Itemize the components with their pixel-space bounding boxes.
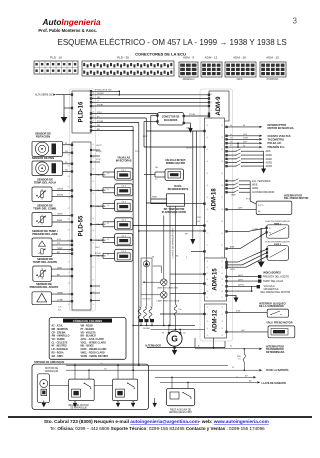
svg-text:DE ARRANQUE: DE ARRANQUE bbox=[70, 407, 87, 410]
svg-text:01: 01 bbox=[211, 94, 213, 96]
svg-text:P1: P1 bbox=[65, 143, 67, 145]
svg-text:Sto. Cabral 723 (8300) Neuqu: Sto. Cabral 723 (8300) Neuquén e-mail bbox=[44, 419, 129, 424]
svg-text:10: 10 bbox=[221, 233, 223, 235]
svg-text:09: 09 bbox=[93, 242, 95, 244]
svg-text:09: 09 bbox=[207, 221, 209, 223]
svg-text:GR - GRIS: GR - GRIS bbox=[52, 356, 64, 358]
svg-text:DA-: DA- bbox=[155, 166, 158, 169]
svg-text:01: 01 bbox=[221, 261, 223, 263]
svg-text:PLD - 16: PLD - 16 bbox=[50, 56, 62, 60]
svg-text:4.5M: 4.5M bbox=[236, 310, 241, 312]
svg-text:B+: B+ bbox=[198, 346, 200, 348]
svg-text:04: 04 bbox=[221, 279, 223, 281]
svg-text:MIL - BEIGE: MIL - BEIGE bbox=[81, 346, 95, 348]
svg-text:CONTROL DEL ARRANQUE E/FRIO: CONTROL DEL ARRANQUE E/FRIO bbox=[172, 227, 175, 259]
svg-text:02: 02 bbox=[207, 267, 209, 269]
svg-text:P163: P163 bbox=[135, 151, 139, 153]
svg-text:14: 14 bbox=[93, 304, 95, 306]
svg-text:03: 03 bbox=[221, 273, 223, 275]
svg-text:ADM - 9: ADM - 9 bbox=[183, 56, 194, 60]
svg-text:W/BK: W/BK bbox=[152, 197, 158, 199]
svg-text:ACONDICIONADOR: ACONDICIONADOR bbox=[252, 191, 274, 194]
svg-text:CR - CREMA: CR - CREMA bbox=[52, 331, 66, 334]
svg-text:VDOS - VERDE OSCURO: VDOS - VERDE OSCURO bbox=[81, 356, 109, 358]
svg-text:03: 03 bbox=[207, 149, 209, 151]
svg-text:BUJÍAS: BUJÍAS bbox=[143, 327, 150, 330]
svg-text:INDICADORES: INDICADORES bbox=[263, 271, 281, 274]
svg-text:INCANDESCENTE: INCANDESCENTE bbox=[168, 188, 189, 191]
svg-text:TEMP. DEL ACEITE: TEMP. DEL ACEITE bbox=[33, 260, 58, 264]
svg-text:05: 05 bbox=[207, 173, 209, 175]
svg-text:TD/W: TD/W bbox=[243, 138, 248, 140]
svg-text:30: 30 bbox=[230, 125, 232, 127]
svg-text:W2: W2 bbox=[65, 170, 68, 172]
svg-text:PT/W: PT/W bbox=[96, 159, 101, 161]
svg-text:ADM - 15: ADM - 15 bbox=[266, 56, 279, 60]
svg-text:DEL FRENO MOTOR: DEL FRENO MOTOR bbox=[284, 197, 309, 200]
svg-text:CUENTA VUELTAS: CUENTA VUELTAS bbox=[268, 134, 291, 138]
svg-text:VD - VERDE: VD - VERDE bbox=[52, 339, 66, 341]
svg-text:PLD-55: PLD-55 bbox=[79, 215, 85, 236]
svg-text:09: 09 bbox=[221, 221, 223, 223]
svg-text:PT/WS-GELB 30/5: PT/WS-GELB 30/5 bbox=[95, 90, 113, 92]
svg-text:48-: 48- bbox=[258, 211, 261, 213]
svg-text:06: 06 bbox=[68, 197, 70, 199]
svg-text:PT/GE: PT/GE bbox=[97, 104, 104, 106]
svg-text:ALTA SERIE 30/3: ALTA SERIE 30/3 bbox=[35, 94, 54, 97]
svg-text:12: 12 bbox=[93, 279, 95, 281]
svg-text:06: 06 bbox=[221, 291, 223, 293]
svg-text:16: 16 bbox=[68, 304, 70, 306]
svg-text:04: 04 bbox=[221, 328, 223, 330]
svg-text:ADM-9: ADM-9 bbox=[216, 96, 222, 116]
svg-text:PLD - 55: PLD - 55 bbox=[117, 56, 129, 60]
svg-text:BR/GN: BR/GN bbox=[95, 253, 101, 255]
svg-text:AZ - AZUL: AZ - AZUL bbox=[52, 325, 64, 328]
svg-text:44PGC: 44PGC bbox=[238, 285, 245, 287]
svg-text:BR - BLANCO: BR - BLANCO bbox=[81, 335, 97, 338]
svg-text:30/2FR: 30/2FR bbox=[97, 93, 104, 95]
svg-text:04: 04 bbox=[93, 107, 95, 109]
svg-text:AMARILLO: AMARILLO bbox=[182, 78, 194, 81]
svg-text:05: 05 bbox=[207, 335, 209, 337]
svg-text:LLAVE DE IGNICIÓN: LLAVE DE IGNICIÓN bbox=[262, 382, 286, 385]
svg-text:MR - MARRÓN: MR - MARRÓN bbox=[52, 328, 68, 331]
svg-text:02: 02 bbox=[211, 102, 213, 104]
svg-text:AutoIngenieria: AutoIngenieria bbox=[42, 17, 101, 27]
svg-text:01: 01 bbox=[207, 307, 209, 309]
svg-text:3: 3 bbox=[293, 17, 298, 26]
svg-text:VMCL - ROJO CLARO: VMCL - ROJO CLARO bbox=[81, 351, 105, 354]
svg-text:07: 07 bbox=[93, 218, 95, 220]
svg-text:CL - CELESTE: CL - CELESTE bbox=[52, 342, 68, 344]
svg-text:13: 13 bbox=[68, 272, 70, 274]
svg-text:RELÉ AUXILIAR DE: RELÉ AUXILIAR DE bbox=[170, 409, 191, 412]
svg-text:RS - ROSA: RS - ROSA bbox=[52, 351, 64, 354]
svg-text:TEMP. DEL AGUA: TEMP. DEL AGUA bbox=[34, 181, 57, 185]
svg-text:MOTOR EN MARCHA: MOTOR EN MARCHA bbox=[268, 126, 294, 130]
svg-text:07: 07 bbox=[221, 197, 223, 199]
svg-text:TEMP. DEL COMB.: TEMP. DEL COMB. bbox=[33, 206, 57, 210]
svg-text:7.5: 7.5 bbox=[238, 358, 241, 360]
svg-text:01: 01 bbox=[93, 144, 95, 146]
svg-text:DEL FRENO DEL MOTOR: DEL FRENO DEL MOTOR bbox=[261, 291, 291, 294]
svg-text:DETERMINADA: DETERMINADA bbox=[266, 351, 285, 354]
svg-text:INT. TEMP. MOTOR: INT. TEMP. MOTOR bbox=[164, 209, 185, 211]
svg-text:03: 03 bbox=[221, 149, 223, 151]
svg-text:03: 03 bbox=[93, 169, 95, 171]
svg-text:PLD-16: PLD-16 bbox=[79, 101, 85, 122]
svg-text:CU/BR: CU/BR bbox=[252, 229, 259, 231]
svg-text:DART: DART bbox=[231, 194, 237, 197]
svg-text:BR/GN: BR/GN bbox=[57, 195, 64, 197]
svg-text:02: 02 bbox=[207, 137, 209, 139]
svg-text:30: 30 bbox=[230, 346, 232, 348]
svg-text:D+: D+ bbox=[230, 134, 232, 136]
svg-text:07: 07 bbox=[207, 297, 209, 299]
svg-text:W: W bbox=[162, 333, 164, 335]
svg-text:GE/GN: GE/GN bbox=[186, 148, 192, 150]
svg-text:08: 08 bbox=[207, 209, 209, 211]
svg-text:VDCL - VERDE CLARO: VDCL - VERDE CLARO bbox=[81, 341, 106, 344]
svg-text:GN/RT: GN/RT bbox=[96, 145, 102, 147]
svg-text:05: 05 bbox=[221, 285, 223, 287]
svg-text:42PT+: 42PT+ bbox=[258, 205, 265, 207]
svg-text:42AM: 42AM bbox=[186, 127, 191, 130]
svg-text:INYECTORAS: INYECTORAS bbox=[116, 160, 132, 163]
svg-text:01: 01 bbox=[207, 261, 209, 263]
svg-text:11: 11 bbox=[207, 245, 209, 247]
svg-text:P2: P2 bbox=[65, 162, 67, 164]
svg-text:02: 02 bbox=[221, 137, 223, 139]
svg-text:ADS: ADS bbox=[266, 150, 271, 153]
svg-text:04: 04 bbox=[93, 181, 95, 183]
svg-text:GN/GE: GN/GE bbox=[57, 189, 64, 191]
svg-text:06: 06 bbox=[221, 185, 223, 187]
svg-text:BOMBA EN FRÍO: BOMBA EN FRÍO bbox=[166, 162, 185, 165]
svg-text:11: 11 bbox=[221, 245, 223, 247]
svg-text:LR - NARANJA: LR - NARANJA bbox=[52, 348, 69, 351]
svg-text:02: 02 bbox=[221, 314, 223, 316]
svg-text:05: 05 bbox=[68, 187, 70, 189]
svg-text:GN/BK: GN/BK bbox=[57, 292, 64, 294]
svg-text:ESQUEMA ELÉCTRICO - OM 457 LA: ESQUEMA ELÉCTRICO - OM 457 LA - 1999 → 1… bbox=[58, 38, 287, 47]
svg-text:ADR1: ADR1 bbox=[266, 154, 273, 157]
svg-text:ADM-18: ADM-18 bbox=[212, 188, 218, 211]
svg-text:PT-: PT- bbox=[155, 179, 158, 181]
svg-text:12: 12 bbox=[207, 257, 209, 259]
svg-text:4.20: 4.20 bbox=[58, 307, 62, 309]
svg-text:PT/GE: PT/GE bbox=[189, 114, 196, 116]
svg-text:DE LA SUSPENSIÓN: DE LA SUSPENSIÓN bbox=[259, 305, 284, 308]
svg-text:PT - NEGRO: PT - NEGRO bbox=[81, 329, 95, 331]
svg-text:DIAGNOSIS: DIAGNOSIS bbox=[164, 119, 178, 122]
svg-text:SENSOR DE PMS: SENSOR DE PMS bbox=[32, 156, 55, 160]
svg-text:TEMP. DEL AGUA: TEMP. DEL AGUA bbox=[263, 280, 284, 283]
svg-text:ARRANQUE EN FRÍO: ARRANQUE EN FRÍO bbox=[169, 411, 192, 414]
svg-text:08: 08 bbox=[221, 209, 223, 211]
svg-text:02: 02 bbox=[93, 156, 95, 158]
svg-text:09: 09 bbox=[68, 229, 70, 231]
svg-text:CRCL - CREMA CLARO: CRCL - CREMA CLARO bbox=[81, 348, 107, 351]
svg-text:BR/GE: BR/GE bbox=[96, 151, 102, 153]
svg-text:04: 04 bbox=[207, 328, 209, 330]
svg-text:04: 04 bbox=[211, 118, 213, 120]
svg-text:G07: G07 bbox=[241, 330, 245, 332]
svg-text:AM - AMARILLO: AM - AMARILLO bbox=[52, 335, 70, 338]
svg-text:PURPURA: PURPURA bbox=[267, 78, 279, 81]
svg-text:03: 03 bbox=[68, 165, 70, 167]
svg-text:W1: W1 bbox=[65, 151, 68, 153]
svg-text:ADR2: ADR2 bbox=[266, 158, 273, 161]
svg-text:11: 11 bbox=[93, 267, 95, 269]
svg-text:07: 07 bbox=[68, 208, 70, 210]
svg-text:ADM-12: ADM-12 bbox=[213, 309, 219, 332]
svg-text:10: 10 bbox=[207, 233, 209, 235]
svg-text:GN/U: GN/U bbox=[57, 267, 62, 269]
svg-text:ADM: ADM bbox=[230, 246, 235, 249]
svg-text:AZCL - AZUL CLARO: AZCL - AZUL CLARO bbox=[81, 338, 104, 341]
svg-text:F17: F17 bbox=[185, 234, 188, 236]
svg-text:01: 01 bbox=[207, 125, 209, 127]
svg-text:07: 07 bbox=[207, 197, 209, 199]
svg-text:P7.8: P7.8 bbox=[246, 199, 250, 201]
svg-text:E.D. TENSORES: E.D. TENSORES bbox=[252, 180, 271, 183]
svg-text:KL: KL bbox=[243, 145, 245, 147]
svg-text:GRIS: GRIS bbox=[237, 78, 243, 81]
svg-text:30: 30 bbox=[232, 367, 234, 369]
svg-text:06: 06 bbox=[93, 116, 95, 118]
svg-text:15: 15 bbox=[236, 377, 238, 379]
svg-text:03: 03 bbox=[221, 321, 223, 323]
svg-text:PRESIÓN DEL ACEITE: PRESIÓN DEL ACEITE bbox=[263, 276, 290, 279]
svg-text:ADM-15: ADM-15 bbox=[213, 268, 219, 291]
svg-text:GRIS: GRIS bbox=[230, 269, 235, 271]
svg-text:44PG: 44PG bbox=[238, 275, 243, 277]
svg-text:01: 01 bbox=[93, 93, 95, 95]
svg-text:04: 04 bbox=[207, 161, 209, 163]
svg-text:BR/BL: BR/BL bbox=[57, 220, 62, 222]
svg-text:ADR4: ADR4 bbox=[266, 165, 273, 168]
svg-text:01: 01 bbox=[221, 307, 223, 309]
svg-text:NT - NEUTRO: NT - NEUTRO bbox=[52, 346, 67, 348]
svg-text:ARRANQUE: ARRANQUE bbox=[45, 370, 59, 373]
svg-text:02: 02 bbox=[221, 267, 223, 269]
svg-text:GN/RT: GN/RT bbox=[57, 214, 64, 216]
svg-text:TEMP: TEMP bbox=[57, 248, 63, 250]
svg-text:01: 01 bbox=[221, 125, 223, 127]
svg-text:08: 08 bbox=[68, 219, 70, 221]
svg-text:ADM - 18: ADM - 18 bbox=[233, 56, 246, 60]
svg-text:06: 06 bbox=[207, 185, 209, 187]
svg-text:05: 05 bbox=[221, 335, 223, 337]
svg-text:04: 04 bbox=[221, 161, 223, 163]
svg-text:05: 05 bbox=[93, 193, 95, 195]
svg-text:GN/U: GN/U bbox=[95, 247, 100, 249]
svg-text:06: 06 bbox=[207, 291, 209, 293]
svg-text:G: G bbox=[171, 334, 178, 344]
svg-text:LÁMP. TEMP. DEL AGUA: LÁMP. TEMP. DEL AGUA bbox=[157, 300, 180, 303]
svg-text:VR - VIOLETA: VR - VIOLETA bbox=[81, 331, 97, 334]
svg-text:ALTERNADOR: ALTERNADOR bbox=[145, 344, 161, 347]
svg-text:04: 04 bbox=[207, 279, 209, 281]
svg-text:PT/U: PT/U bbox=[97, 112, 102, 114]
svg-text:03: 03 bbox=[207, 321, 209, 323]
svg-text:30 DE LA BATERÍA: 30 DE LA BATERÍA bbox=[266, 369, 289, 372]
svg-text:05: 05 bbox=[93, 111, 95, 113]
svg-text:12: 12 bbox=[221, 257, 223, 259]
svg-text:ADM - 12: ADM - 12 bbox=[205, 56, 218, 60]
svg-text:14: 14 bbox=[68, 283, 70, 285]
svg-text:03: 03 bbox=[211, 110, 213, 112]
svg-text:12: 12 bbox=[68, 261, 70, 263]
svg-text:ADR1: ADR1 bbox=[252, 187, 259, 190]
svg-text:POLEA A/C: POLEA A/C bbox=[268, 141, 282, 145]
svg-text:07: 07 bbox=[221, 297, 223, 299]
svg-text:05: 05 bbox=[221, 173, 223, 175]
svg-text:S1 S2 S3: S1 S2 S3 bbox=[143, 299, 151, 301]
svg-text:VM - ROJO: VM - ROJO bbox=[81, 326, 93, 328]
svg-text:CONECTORES DE LA ECU: CONECTORES DE LA ECU bbox=[135, 52, 186, 57]
svg-text:11: 11 bbox=[68, 251, 70, 253]
svg-text:Prof. Pablo Monteros & Asoc.: Prof. Pablo Monteros & Asoc. bbox=[38, 28, 97, 33]
svg-text:30: 30 bbox=[243, 125, 245, 127]
svg-text:08: 08 bbox=[93, 230, 95, 232]
svg-text:VÁLV. FRENO MOTOR: VÁLV. FRENO MOTOR bbox=[266, 322, 293, 325]
svg-text:ADR3: ADR3 bbox=[266, 161, 273, 164]
svg-text:05: 05 bbox=[207, 285, 209, 287]
svg-text:44PG: 44PG bbox=[238, 279, 243, 281]
svg-text:04: 04 bbox=[68, 176, 70, 178]
svg-text:Te: Oficina: 0299 – 442 6809: Te: Oficina: 0299 – 442 6809 Soporte Téc… bbox=[50, 426, 265, 431]
svg-text:P/ ARRANQUE E/FRÍO: P/ ARRANQUE E/FRÍO bbox=[162, 211, 187, 214]
svg-text:02: 02 bbox=[207, 314, 209, 316]
svg-text:KL: KL bbox=[230, 145, 232, 147]
svg-text:LÁMP. DE DIAGNOSIS: LÁMP. DE DIAGNOSIS bbox=[157, 286, 178, 289]
svg-text:02: 02 bbox=[68, 155, 70, 157]
svg-text:03: 03 bbox=[207, 273, 209, 275]
svg-text:PT/GN: PT/GN bbox=[97, 121, 104, 123]
svg-text:RELÉ DEL MOTOR: RELÉ DEL MOTOR bbox=[69, 404, 90, 407]
svg-text:COMB: COMB bbox=[57, 299, 63, 301]
